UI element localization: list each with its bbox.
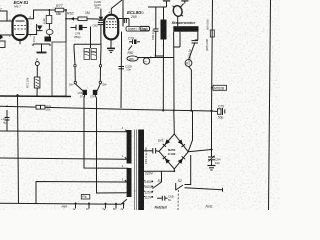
- wire Sb feed upper: [90, 27, 92, 49]
- box screening: [52, 42, 66, 96]
- T terminal 2 top: [181, 0, 188, 2]
- bus wire y96: [0, 95, 71, 98]
- bus wire y193 from switch: [97, 98, 127, 193]
- capacitor C left of V2: [98, 22, 104, 24]
- wire motor to box: [177, 16, 179, 26]
- bus wire y131.5: [0, 130, 127, 133]
- resistor stack R66: [46, 29, 53, 34]
- resistor R76: [36, 105, 45, 109]
- tube V2 envelope: [104, 15, 118, 40]
- wire H1 bottom: [189, 66, 192, 110]
- bus wire y182: [36, 182, 127, 204]
- wire top motor feed: [148, 6, 167, 8]
- wire bridge right feed: [188, 111, 192, 152]
- capacitor C81: [152, 148, 154, 154]
- bus wire y158.5: [0, 158, 127, 159]
- wire tube V1 right lower to C63: [28, 24, 37, 35]
- bridge diode blobs: [162, 139, 185, 164]
- wire bridge right to C84: [188, 150, 211, 152]
- tube V2 anode bar: [108, 18, 116, 20]
- capacitor C80: [154, 28, 159, 30]
- label box 60551: [126, 27, 150, 32]
- pot R82 arrow: [129, 46, 133, 51]
- label box Pa frame: [81, 194, 90, 199]
- diode D1: [37, 26, 43, 31]
- Sb contacts lower: [74, 81, 76, 83]
- transformer winding bar right: [138, 130, 144, 211]
- capacitor on x121: [119, 66, 125, 68]
- tube V1 electrodes: [16, 20, 25, 22]
- switch S3 arm: [153, 182, 162, 189]
- label box M762B: [213, 85, 227, 90]
- wire R71 down: [36, 88, 38, 96]
- ground for C84: [208, 165, 216, 167]
- tube V1 envelope: [13, 15, 28, 40]
- wire x62.8 vertical: [65, 10, 67, 42]
- capacitor at pin7: [123, 18, 125, 23]
- wire tube V2 top pin: [110, 9, 112, 15]
- wire motor box left down: [173, 32, 175, 111]
- wire motor box right: [197, 32, 199, 40]
- wire H2 row: [138, 57, 174, 59]
- lamp H1: [185, 60, 192, 67]
- label box 7mA: [140, 26, 150, 30]
- wire R62 row: [66, 18, 78, 20]
- capacitor C84: [211, 150, 213, 157]
- wire tube V1 anode to R77 rail: [28, 10, 50, 19]
- lamp H2: [143, 58, 149, 64]
- transformer winding bar left: [127, 130, 132, 164]
- bus wire y107-111: [0, 106, 212, 111]
- wire diagonal to top edge: [111, 0, 122, 9]
- wire HT rail vertical x211: [212, 0, 213, 150]
- left edge triangle: [0, 35, 3, 40]
- Sb component blobs: [84, 49, 90, 60]
- switch group Sb top rail: [74, 43, 101, 45]
- wire choke top: [163, 7, 165, 20]
- diode D3 left of V2: [99, 17, 104, 21]
- motor armature M1: [172, 5, 184, 18]
- resistor R62: [78, 17, 87, 21]
- tube V2 grids: [106, 22, 117, 28]
- wire tube V1 left pin 2: [0, 20, 13, 22]
- transformer core lines: [133, 130, 135, 211]
- wire component column x49.4: [48, 10, 50, 16]
- resistor stack R65: [46, 16, 52, 24]
- selector contact dots: [151, 181, 153, 183]
- bridge rectifier Gr1 diamond: [159, 134, 188, 169]
- wire bridge right down to S2: [185, 155, 191, 185]
- wire tube V2 pin7: [118, 18, 129, 20]
- capacitor C64 blob: [45, 37, 52, 42]
- wire bridge top feed: [173, 111, 176, 135]
- resistor R71: [34, 77, 40, 88]
- wire C79 column: [120, 32, 123, 109]
- pot P terminal: [35, 62, 39, 66]
- Sb coil blocks: [83, 90, 88, 95]
- motor box black bar: [173, 26, 198, 32]
- left edge box stub: [0, 41, 5, 48]
- wire into label box: [128, 19, 130, 27]
- pot R82 body: [127, 56, 138, 61]
- taps to voltage selector: [143, 180, 146, 182]
- wire right page border: [269, 0, 271, 210]
- wire motor box inner: [179, 32, 181, 47]
- wire bridge bottom: [144, 169, 174, 171]
- capacitor C74: [6, 110, 8, 118]
- wire R77 rail: [49, 9, 55, 11]
- switch S2: [175, 183, 177, 190]
- wire tube V1 left pin 1: [0, 34, 13, 36]
- Sb contacts upper: [74, 65, 76, 67]
- bus wire y168 from switch: [84, 98, 129, 168]
- wire C80 join choke: [156, 55, 164, 57]
- capacitor C79: [129, 40, 140, 45]
- wire top-left L: [0, 11, 7, 21]
- wire tube V2 bottom: [110, 39, 112, 45]
- choke winding black bar: [161, 20, 167, 40]
- bottom bus junction stubs: [75, 203, 77, 208]
- T terminal 1 top: [163, 0, 170, 2]
- connector on HT rail: [210, 30, 214, 37]
- wire vertical x17.5: [18, 95, 19, 204]
- capacitor C75: [212, 110, 218, 113]
- tube V1 grid dashes: [14, 26, 26, 30]
- wire choke bottom to bus: [162, 40, 164, 111]
- bottom bus wire y203.5: [0, 199, 127, 204]
- scan noise overlay: [0, 0, 1, 1]
- capacitor C68: [157, 197, 162, 199]
- diode D2 on R62 row: [71, 17, 75, 21]
- resistor R77: [55, 8, 64, 12]
- S2 linkage dashed: [177, 190, 179, 210]
- capacitor C222: [195, 39, 198, 41]
- ground symbol mid-left: [33, 43, 50, 45]
- ground symbol right of Sb: [110, 42, 112, 48]
- capacitor C78: [71, 27, 76, 29]
